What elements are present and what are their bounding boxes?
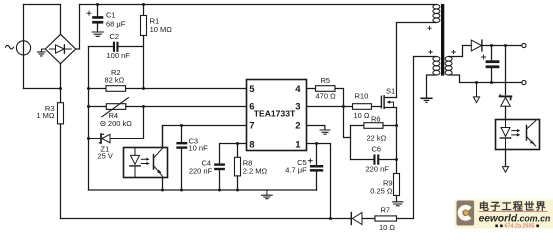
secondary polarity + bbox=[452, 50, 455, 53]
capacitor C2 100nF bbox=[89, 46, 113, 48]
ground symbol on rail A bbox=[266, 190, 268, 195]
svg-text:100 nF: 100 nF bbox=[107, 51, 131, 60]
node C5 junction bbox=[315, 142, 318, 145]
wire AC live vertical through source bbox=[23, 5, 25, 89]
ground symbol pin2 bbox=[320, 130, 330, 134]
terminal circle output plus bbox=[522, 43, 526, 47]
opto LED bbox=[134, 148, 136, 155]
svg-text:C2: C2 bbox=[110, 32, 120, 41]
watermark eeworld bbox=[455, 200, 553, 230]
zener diode output bbox=[499, 95, 501, 97]
op IC U1 TEA1733T box bbox=[247, 80, 307, 151]
svg-text:4: 4 bbox=[295, 84, 301, 95]
node R6 right bbox=[395, 124, 398, 127]
svg-text:2: 2 bbox=[295, 120, 300, 131]
resistor R6 22kohm bbox=[351, 125, 364, 127]
wire pin8 net bbox=[220, 144, 247, 164]
svg-text:R6: R6 bbox=[371, 114, 381, 123]
wire pin1 net bbox=[307, 144, 331, 219]
resistor R1 10 Mohm bbox=[143, 5, 145, 16]
node Z1 left bbox=[87, 137, 90, 140]
svg-text:■ ■ 674.2а.2935 ■: ■ ■ 674.2а.2935 ■ bbox=[495, 223, 539, 229]
svg-text:10 nF: 10 nF bbox=[189, 143, 209, 152]
diode D1 bbox=[350, 213, 352, 225]
svg-text:2.2 MΩ: 2.2 MΩ bbox=[243, 166, 268, 175]
wire aux top to R7 bbox=[414, 56, 437, 58]
wire aux bottom to ground bbox=[427, 75, 437, 98]
wire VCC rail B bottom bbox=[61, 218, 352, 220]
node R5 to pin3 wire bbox=[342, 105, 345, 108]
svg-text:10 Ω: 10 Ω bbox=[379, 223, 395, 232]
wire pin5 net bbox=[126, 88, 247, 90]
resistor R7 10ohm bbox=[375, 216, 397, 221]
svg-text:1: 1 bbox=[295, 139, 301, 150]
wire top DC rail bbox=[80, 4, 437, 6]
capacitor C6 220nF bbox=[351, 159, 374, 161]
svg-text:22 kΩ: 22 kΩ bbox=[367, 133, 387, 142]
wire opto emitter to ground rail bbox=[162, 178, 164, 191]
svg-text:0.25 Ω: 0.25 Ω bbox=[370, 187, 393, 196]
capacitor C3 10nF bbox=[181, 126, 183, 142]
node zener chain top bbox=[504, 44, 507, 47]
wire AC neutral jog bbox=[24, 88, 61, 90]
opto2 phototransistor bbox=[526, 126, 528, 140]
AC source V1 bbox=[16, 41, 30, 55]
node pin5/R1 junction bbox=[142, 87, 145, 90]
svg-text:82 kΩ: 82 kΩ bbox=[105, 76, 125, 85]
svg-text:R10: R10 bbox=[355, 91, 369, 100]
node pin1 on rail B bbox=[329, 217, 332, 220]
opto2 light arrows bbox=[512, 131, 517, 135]
svg-text:220 nF: 220 nF bbox=[189, 166, 213, 175]
node output cap top bbox=[490, 44, 493, 47]
opto light arrows bbox=[141, 159, 146, 163]
node secondary gnd arrow bbox=[475, 81, 478, 84]
ground symbol aux bbox=[421, 97, 432, 99]
wire Z1 riser to pin6 bbox=[143, 107, 145, 139]
resistor R5 470ohm bbox=[316, 86, 336, 92]
diode D2 output bbox=[471, 40, 481, 51]
capacitor output electrolytic bbox=[491, 46, 493, 61]
svg-text:S1: S1 bbox=[386, 86, 395, 95]
ground symbol R9 bbox=[393, 202, 403, 206]
svg-text:5: 5 bbox=[249, 84, 255, 95]
wire pin2 net to ground bbox=[307, 126, 325, 130]
svg-text:220 nF: 220 nF bbox=[366, 164, 390, 173]
node C6 right bbox=[395, 158, 398, 161]
transformer primary winding bbox=[433, 5, 440, 23]
bridge rectifier B1 diamond bbox=[45, 34, 75, 63]
node R1 junction bbox=[142, 3, 145, 6]
node R8 junction bbox=[236, 142, 239, 145]
capacitor C1 68uF bbox=[97, 5, 99, 17]
aux polarity + bbox=[429, 50, 432, 53]
AC sine symbol bbox=[6, 45, 14, 49]
arrow feedback down bbox=[502, 167, 508, 173]
node C3 junction bbox=[180, 124, 183, 127]
wire pin7 net bbox=[163, 126, 247, 148]
wire zener chain bbox=[505, 46, 507, 95]
svg-text:C6: C6 bbox=[372, 144, 382, 153]
wire output plus bbox=[482, 45, 522, 47]
opto phototransistor bbox=[153, 155, 155, 169]
resistor R9 0.25ohm bbox=[394, 174, 400, 196]
node opto emitter on rail bbox=[161, 189, 164, 192]
node R2 left bbox=[87, 87, 90, 90]
wire secondary bottom bbox=[449, 75, 522, 83]
transformer secondary winding bbox=[445, 57, 452, 76]
transformer T1 core bbox=[441, 4, 444, 76]
optocoupler U3 box bbox=[496, 120, 540, 150]
wire pin4 net bbox=[307, 88, 316, 90]
thermistor R4 200kohm bbox=[89, 106, 107, 108]
svg-text:8: 8 bbox=[249, 139, 254, 150]
resistor R2 82kohm bbox=[89, 88, 107, 90]
svg-text:25 V: 25 V bbox=[98, 152, 113, 161]
node C4 on rail bbox=[218, 189, 221, 192]
arrow secondary ground bbox=[476, 83, 478, 97]
wire secondary top bbox=[449, 46, 472, 57]
svg-text:470 Ω: 470 Ω bbox=[316, 92, 337, 101]
zener diode Z1 25V bbox=[89, 138, 100, 140]
wire S1 drain to transformer bbox=[397, 23, 437, 98]
primary polarity + bbox=[428, 27, 431, 30]
node R8 on rail bbox=[236, 189, 239, 192]
transformer aux winding bbox=[433, 57, 440, 76]
wire ground rail A bbox=[89, 189, 317, 191]
opto2 LED bbox=[505, 120, 507, 127]
node C3 on rail bbox=[180, 189, 183, 192]
svg-text:68 μF: 68 μF bbox=[106, 19, 126, 28]
wire opto2 down bbox=[505, 150, 507, 167]
wire pin6 net bbox=[126, 106, 247, 108]
svg-text:C1: C1 bbox=[106, 11, 116, 20]
node output cap bottom bbox=[490, 81, 493, 84]
svg-text:7: 7 bbox=[249, 120, 254, 131]
svg-text:1 MΩ: 1 MΩ bbox=[36, 111, 55, 120]
wire S1 source down bbox=[396, 108, 398, 174]
wire bridge DC+ up to top rail bbox=[76, 5, 80, 50]
earth ground at bridge left vertex bbox=[42, 49, 46, 52]
resistor R10 10ohm bbox=[353, 104, 372, 110]
node AC-neutral junction bbox=[59, 87, 62, 90]
capacitor C5 4.7uF bbox=[316, 144, 318, 165]
node R4 left bbox=[87, 105, 90, 108]
optocoupler U2 box bbox=[124, 148, 168, 178]
svg-text:TEA1733T: TEA1733T bbox=[254, 108, 296, 118]
svg-text:Θ 200 kΩ: Θ 200 kΩ bbox=[100, 119, 132, 128]
svg-text:10 Ω: 10 Ω bbox=[354, 111, 370, 120]
terminal circle output minus bbox=[522, 80, 526, 84]
wire opto collector to pin7 bbox=[162, 126, 164, 148]
node pin6/Z1 junction bbox=[142, 105, 145, 108]
wire pin3 net bbox=[307, 106, 353, 108]
bridge diode symbol bbox=[50, 45, 72, 53]
svg-text:3: 3 bbox=[295, 101, 300, 112]
node C1 junction bbox=[96, 3, 99, 6]
resistor R8 2.2Mohm bbox=[237, 144, 239, 158]
wire left ground column bbox=[88, 47, 90, 191]
svg-text:R5: R5 bbox=[321, 76, 331, 85]
capacitor C4 220nF bbox=[214, 163, 225, 165]
svg-text:10 MΩ: 10 MΩ bbox=[150, 25, 173, 34]
resistor R3 1Mohm bbox=[60, 64, 62, 103]
svg-text:4.7 μF: 4.7 μF bbox=[285, 165, 307, 174]
wire pin3 node down to gate RC network bbox=[344, 107, 351, 138]
svg-text:R7: R7 bbox=[381, 205, 391, 214]
wire AC top to bridge bbox=[24, 5, 61, 35]
